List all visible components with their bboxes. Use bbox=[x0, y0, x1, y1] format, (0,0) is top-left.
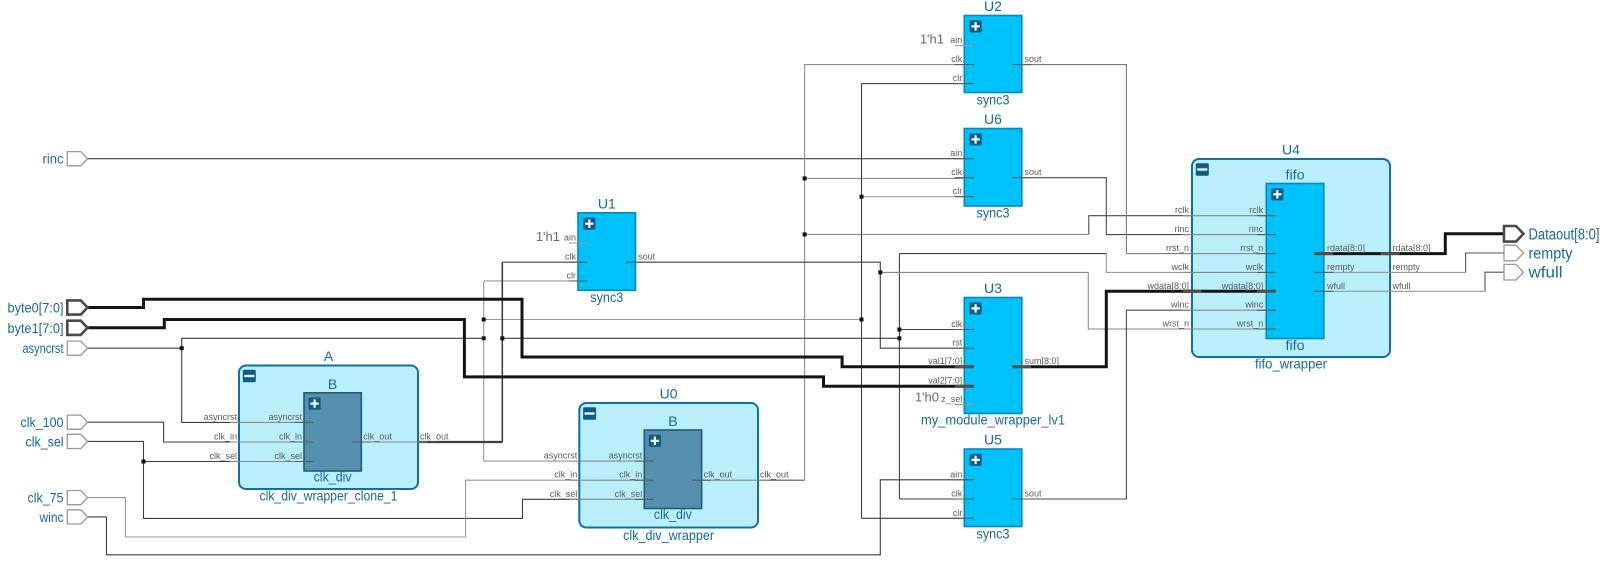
svg-text:clk: clk bbox=[951, 489, 962, 499]
svg-text:fifo: fifo bbox=[1286, 167, 1305, 183]
svg-text:winc: winc bbox=[39, 509, 64, 525]
U0 pass-through wires bbox=[570, 461, 768, 499]
U3 bus pin stubs bbox=[955, 367, 1032, 387]
svg-text:clk_sel: clk_sel bbox=[274, 451, 302, 461]
wire wfull net bbox=[1314, 290, 1485, 292]
U4 inner pin labels bbox=[1221, 205, 1264, 328]
input port winc bbox=[67, 510, 87, 524]
U4 pass-through wires inside wrapper bbox=[1183, 216, 1276, 329]
U4 right pin labels bbox=[1326, 243, 1431, 291]
wire rclk net bbox=[692, 479, 805, 481]
svg-text:fifo: fifo bbox=[1286, 337, 1305, 353]
expand icon B bbox=[309, 398, 321, 410]
svg-text:rinc: rinc bbox=[43, 151, 64, 167]
block B clk_div inside U0 bbox=[644, 430, 701, 509]
expand icon U4 bbox=[1196, 163, 1209, 176]
svg-text:U1: U1 bbox=[598, 195, 616, 211]
B2 pin stubs bbox=[635, 461, 711, 499]
svg-text:rempty: rempty bbox=[1327, 262, 1355, 272]
svg-text:clr: clr bbox=[953, 73, 963, 83]
wire winc net bbox=[88, 480, 974, 555]
input port clk_sel bbox=[67, 434, 87, 448]
svg-text:clk: clk bbox=[951, 167, 962, 177]
A pass-through wires bbox=[230, 422, 428, 461]
U2 pin stubs bbox=[955, 45, 974, 47]
svg-text:asyncrst: asyncrst bbox=[268, 412, 302, 422]
U4 outer pin labels bbox=[1146, 205, 1189, 328]
svg-text:rempty: rempty bbox=[1393, 262, 1421, 272]
svg-text:z_sel: z_sel bbox=[941, 394, 962, 404]
svg-text:wrst_n: wrst_n bbox=[1161, 319, 1189, 329]
block U3 my_module_wrapper_lv1 bbox=[964, 298, 1022, 414]
output port wfull bbox=[1504, 264, 1524, 280]
svg-text:clk_in: clk_in bbox=[554, 470, 577, 480]
svg-text:winc: winc bbox=[1170, 300, 1190, 310]
svg-text:clk_in: clk_in bbox=[214, 432, 237, 442]
svg-text:rinc: rinc bbox=[1174, 224, 1189, 234]
svg-text:clk_div: clk_div bbox=[654, 506, 692, 522]
U4 bus outer stubs bbox=[1183, 254, 1400, 292]
svg-text:U0: U0 bbox=[660, 386, 678, 402]
svg-text:1'h1: 1'h1 bbox=[920, 32, 944, 47]
expand icon B2 bbox=[649, 435, 661, 447]
svg-text:clk_sel: clk_sel bbox=[209, 451, 237, 461]
svg-text:clk_sel: clk_sel bbox=[550, 489, 578, 499]
block U5 sync3 bbox=[964, 449, 1022, 527]
wire sum bus to U4.wdata bbox=[1012, 291, 1276, 366]
expand icon U0 bbox=[583, 407, 596, 420]
svg-text:clk_100: clk_100 bbox=[21, 414, 64, 430]
svg-text:clk_div: clk_div bbox=[314, 469, 352, 485]
svg-text:clk_div_wrapper: clk_div_wrapper bbox=[623, 527, 714, 543]
input port clk_75 bbox=[67, 491, 87, 505]
svg-text:wfull: wfull bbox=[1527, 265, 1562, 282]
svg-text:clk_out: clk_out bbox=[363, 432, 392, 442]
svg-text:ain: ain bbox=[950, 148, 962, 158]
svg-text:byte0[7:0]: byte0[7:0] bbox=[8, 300, 64, 316]
svg-text:sync3: sync3 bbox=[977, 92, 1010, 108]
svg-text:clk_sel: clk_sel bbox=[26, 433, 64, 449]
svg-text:rst: rst bbox=[952, 338, 962, 348]
svg-text:wclk: wclk bbox=[1171, 262, 1190, 272]
input port asyncrst bbox=[67, 341, 87, 355]
block U1 sync3 bbox=[578, 213, 636, 290]
svg-text:clk_out: clk_out bbox=[704, 470, 733, 480]
svg-text:sum[8:0]: sum[8:0] bbox=[1025, 356, 1060, 366]
svg-text:asyncrst: asyncrst bbox=[203, 412, 237, 422]
block U6 sync3 bbox=[964, 129, 1022, 207]
svg-text:clr: clr bbox=[953, 186, 963, 196]
svg-text:sout: sout bbox=[1025, 489, 1043, 499]
block U2 sync3 bbox=[964, 16, 1022, 93]
svg-text:ain: ain bbox=[564, 233, 576, 243]
svg-text:clr: clr bbox=[953, 508, 963, 518]
svg-text:clk: clk bbox=[951, 319, 962, 329]
hierarchical block U0 clk_div_wrapper bbox=[579, 403, 758, 528]
expand icon fifo bbox=[1271, 188, 1283, 200]
svg-text:clr: clr bbox=[567, 271, 577, 281]
svg-text:B: B bbox=[328, 376, 337, 392]
svg-text:clk_out: clk_out bbox=[420, 432, 449, 442]
fifo inner pin stubs bbox=[1257, 216, 1334, 329]
svg-text:clk_75: clk_75 bbox=[28, 490, 64, 506]
svg-text:rinc: rinc bbox=[1249, 224, 1264, 234]
wire wclk net from A.clk_out bbox=[352, 254, 1107, 499]
wire rdata bus to Dataout bbox=[1314, 234, 1504, 254]
svg-text:U4: U4 bbox=[1282, 142, 1300, 158]
wire winc sync from U5.sout to U4.winc bbox=[1012, 310, 1276, 499]
svg-text:clk_sel: clk_sel bbox=[615, 489, 643, 499]
svg-text:rclk: rclk bbox=[1175, 205, 1189, 215]
U0 pin labels bbox=[544, 451, 643, 499]
svg-text:clk_in: clk_in bbox=[619, 470, 642, 480]
input port clk_100 bbox=[67, 415, 87, 429]
input port rinc bbox=[67, 152, 87, 166]
wire byte0 bus bbox=[88, 299, 974, 366]
wire rempty net bbox=[1314, 271, 1465, 273]
svg-text:byte1[7:0]: byte1[7:0] bbox=[8, 320, 64, 336]
wire U6.sout to U4.rinc bbox=[1012, 178, 1276, 235]
svg-text:wdata[8:0]: wdata[8:0] bbox=[1221, 281, 1264, 291]
wire rinc net bbox=[88, 158, 974, 160]
wire clr net (U2/U6/U5 clr) bbox=[862, 84, 974, 519]
B pin stubs bbox=[295, 422, 371, 461]
svg-text:sync3: sync3 bbox=[977, 205, 1010, 221]
input port byte1[7:0] bbox=[67, 321, 87, 335]
svg-text:clk_in: clk_in bbox=[279, 432, 302, 442]
wire wrst net from U1.sout bbox=[626, 262, 974, 348]
svg-text:B: B bbox=[668, 413, 677, 429]
svg-text:1'h1: 1'h1 bbox=[536, 229, 560, 244]
svg-text:clk: clk bbox=[951, 54, 962, 64]
wire clk_sel net bbox=[88, 441, 654, 518]
svg-text:1'h0: 1'h0 bbox=[915, 390, 939, 405]
svg-text:Dataout[8:0]: Dataout[8:0] bbox=[1529, 226, 1600, 243]
svg-text:wclk: wclk bbox=[1245, 262, 1264, 272]
wire clk_75 net bbox=[88, 480, 654, 537]
A pin labels bbox=[203, 412, 302, 461]
svg-text:rclk: rclk bbox=[1249, 205, 1263, 215]
svg-text:clk: clk bbox=[565, 252, 576, 262]
block fifo inside U4 bbox=[1266, 184, 1324, 339]
svg-text:rrst_n: rrst_n bbox=[1240, 243, 1263, 253]
hierarchical block A clk_div_wrapper_clone_1 bbox=[239, 366, 418, 490]
svg-text:U2: U2 bbox=[984, 0, 1002, 14]
svg-text:sync3: sync3 bbox=[590, 289, 623, 305]
svg-text:sout: sout bbox=[1025, 167, 1043, 177]
wire asyncrst net bbox=[88, 338, 484, 422]
svg-text:asyncrst: asyncrst bbox=[23, 340, 64, 356]
svg-text:asyncrst: asyncrst bbox=[544, 451, 578, 461]
svg-text:sout: sout bbox=[1025, 54, 1043, 64]
svg-text:clk_div_wrapper_clone_1: clk_div_wrapper_clone_1 bbox=[260, 488, 398, 504]
hierarchical block U4 fifo_wrapper bbox=[1192, 159, 1390, 357]
wire clk_100 net bbox=[88, 422, 314, 442]
svg-text:A: A bbox=[324, 348, 334, 364]
wire rrst net from U2.sout bbox=[1012, 65, 1276, 254]
svg-text:ain: ain bbox=[950, 469, 962, 479]
svg-text:U3: U3 bbox=[984, 280, 1002, 296]
svg-text:rdata[8:0]: rdata[8:0] bbox=[1393, 243, 1431, 253]
svg-text:wdata[8:0]: wdata[8:0] bbox=[1146, 281, 1189, 291]
wire byte1 bus bbox=[88, 320, 974, 387]
svg-text:sout: sout bbox=[638, 252, 656, 262]
junction dots bbox=[142, 176, 902, 463]
svg-text:val2[7:0]: val2[7:0] bbox=[928, 376, 962, 386]
svg-text:U6: U6 bbox=[984, 111, 1002, 127]
svg-text:ain: ain bbox=[950, 35, 962, 45]
svg-text:rdata[8:0]: rdata[8:0] bbox=[1327, 243, 1365, 253]
svg-text:clk_out: clk_out bbox=[760, 470, 789, 480]
svg-text:asyncrst: asyncrst bbox=[609, 451, 643, 461]
svg-text:wfull: wfull bbox=[1392, 281, 1411, 291]
input port byte0[7:0] bbox=[67, 300, 87, 314]
output port rempty bbox=[1504, 245, 1524, 261]
svg-text:val1[7:0]: val1[7:0] bbox=[928, 356, 962, 366]
svg-text:U5: U5 bbox=[984, 432, 1002, 448]
output port Dataout[8:0] bbox=[1504, 226, 1524, 242]
svg-text:fifo_wrapper: fifo_wrapper bbox=[1255, 356, 1327, 372]
svg-text:winc: winc bbox=[1244, 300, 1264, 310]
svg-text:rempty: rempty bbox=[1529, 246, 1573, 263]
expand icon A bbox=[243, 370, 256, 383]
svg-text:sync3: sync3 bbox=[977, 526, 1010, 542]
svg-text:wfull: wfull bbox=[1326, 281, 1345, 291]
block B clk_div inside A bbox=[304, 393, 361, 471]
svg-text:wrst_n: wrst_n bbox=[1236, 319, 1264, 329]
svg-text:rrst_n: rrst_n bbox=[1166, 243, 1189, 253]
svg-text:my_module_wrapper_lv1: my_module_wrapper_lv1 bbox=[921, 412, 1065, 428]
